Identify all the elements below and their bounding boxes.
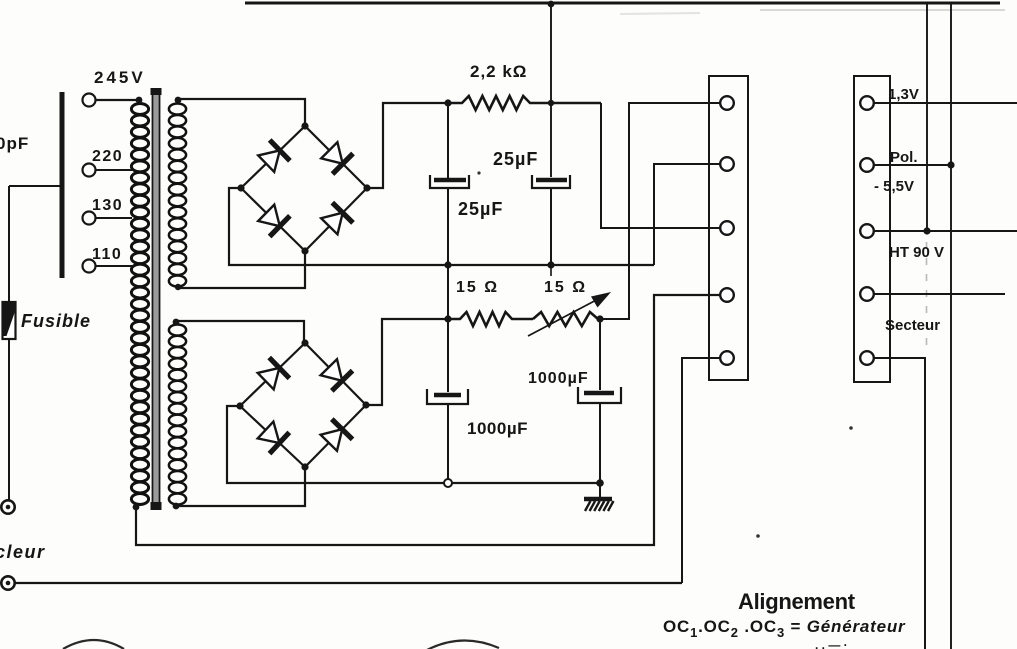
resistor R1 2,2 kOhm	[448, 96, 601, 110]
svg-text:1000µF: 1000µF	[467, 419, 528, 438]
svg-text:220: 220	[92, 148, 123, 165]
diode D3	[258, 205, 290, 237]
terminal strip left	[709, 76, 748, 380]
capacitor C4 1000uF	[578, 319, 621, 483]
node primary bottom	[133, 504, 140, 511]
terminal 220	[83, 164, 96, 177]
wire 220 tap	[96, 169, 132, 171]
selector plate bar	[60, 92, 65, 278]
wire down to fuse	[8, 186, 10, 303]
svg-text:Fusible: Fusible	[21, 311, 91, 331]
terminal right strip pin 5	[860, 351, 874, 365]
svg-text:Secteur: Secteur	[885, 317, 940, 334]
wire mains 2 long bottom run to right	[15, 582, 682, 584]
terminal left strip pin 2	[720, 157, 734, 171]
wire upper bridge - output down to minus rail	[229, 188, 654, 265]
node bridge vertex right	[362, 401, 369, 408]
wire primary bottom to strip T4 (mains)	[136, 295, 720, 545]
diode D2	[321, 142, 353, 174]
svg-text:Pol.: Pol.	[890, 149, 918, 166]
terminal right strip pin 4	[860, 287, 874, 301]
diode D5	[258, 358, 290, 390]
wire right T4 output	[874, 293, 1005, 295]
node C3 bottom open circle on ground rail	[444, 479, 452, 487]
node R1 left junction	[444, 99, 451, 106]
terminal mains input 1	[1, 500, 14, 513]
scan ghost line	[760, 9, 1005, 11]
wire right T2 Pol to bus	[874, 164, 951, 166]
terminal 130	[83, 212, 96, 225]
terminal strip right	[854, 76, 890, 382]
svg-text:Alignement: Alignement	[738, 589, 856, 614]
node R1 right / HT junction	[548, 100, 554, 106]
wire 130 tap	[96, 217, 132, 219]
svg-text:245V: 245V	[94, 68, 146, 87]
node HT junction on bus 1	[923, 227, 930, 234]
node Pol junction on bus 2	[947, 161, 954, 168]
svg-text:1,3V: 1,3V	[888, 86, 919, 103]
wire up from bottom run to strip T5	[682, 358, 720, 583]
svg-text:cleur: cleur	[0, 542, 46, 562]
wire bridge arm lower	[240, 343, 366, 467]
wire faint continuation of bus 1	[926, 242, 928, 350]
node bridge vertex top	[301, 122, 308, 129]
ink speck	[477, 171, 480, 174]
wire stub below C2 junction	[550, 265, 552, 276]
wire 110 tap	[96, 265, 132, 267]
capacitor C1 25uF	[430, 103, 469, 265]
svg-text:15 Ω: 15 Ω	[456, 279, 499, 296]
node secondary upper bottom	[175, 284, 181, 290]
node secondary lower bottom	[173, 503, 180, 510]
tube envelope arc cut at bottom left	[63, 640, 124, 649]
resistor R2 15 Ohm	[448, 312, 533, 326]
terminal right strip pin 1	[860, 96, 874, 110]
diode D4	[321, 203, 353, 235]
svg-text:2,2 kΩ: 2,2 kΩ	[470, 62, 527, 81]
wire upper bridge + output to 2.2k junction	[367, 103, 448, 188]
ink speck	[756, 534, 760, 538]
terminal left strip pin 4	[720, 288, 734, 302]
arrow of adjustable resistor R3	[528, 292, 611, 336]
wire C1 junction down to 15 ohm row	[447, 265, 449, 319]
terminal right strip pin 3	[860, 224, 874, 238]
svg-text:1000µF: 1000µF	[528, 370, 589, 387]
diode D6	[321, 359, 353, 391]
wire top HT+ rail	[245, 2, 1000, 5]
terminal right strip pin 2	[860, 158, 874, 172]
svg-text:HT 90 V: HT 90 V	[889, 244, 944, 261]
node bridge vertex left	[237, 184, 244, 191]
svg-text:25µF: 25µF	[493, 149, 538, 169]
capacitor C2 25uF	[532, 175, 570, 265]
wire right T1 1,3V output	[874, 102, 1017, 104]
fuse F1 Fusible	[3, 302, 16, 339]
wire lower bridge + output to 15 ohm row	[366, 319, 448, 405]
svg-text:130: 130	[92, 197, 123, 214]
diode D1	[258, 140, 290, 172]
tube envelope arc cut at bottom middle	[427, 640, 499, 649]
wire right T3 HT output	[874, 230, 1017, 232]
terminal left strip pin 1	[720, 96, 734, 110]
wire lower bridge - output to ground rail	[227, 406, 600, 483]
svg-text:. . — ·: . . — ·	[815, 638, 848, 649]
node C1 bottom on minus rail	[444, 261, 451, 268]
wire R3 output up to left strip T1	[600, 103, 720, 319]
terminal left strip pin 5	[720, 351, 734, 365]
node R3 output junction	[596, 315, 603, 322]
wire from fuse column to selector plate	[9, 185, 60, 187]
node 15 ohm left junction	[444, 315, 451, 322]
terminal mains input 2	[1, 576, 14, 589]
transformer TR1 core	[152, 90, 161, 508]
terminal 245V	[83, 94, 96, 107]
wire secondary lower top to lower bridge top	[176, 321, 304, 343]
transformer secondary winding lower	[169, 325, 186, 505]
node secondary upper top	[175, 97, 182, 104]
node bridge vertex bottom	[301, 247, 308, 254]
terminal 110	[83, 260, 96, 273]
transformer secondary winding upper	[169, 104, 186, 287]
transformer primary winding	[131, 104, 148, 505]
wire bridge arm upper	[241, 126, 367, 251]
svg-text:110: 110	[92, 246, 122, 263]
node C2 bottom on minus rail	[547, 261, 554, 268]
wire R1 output to left strip T3	[601, 103, 720, 228]
node ground junction	[596, 479, 604, 487]
node junction top rail / 25uF feed	[548, 1, 555, 8]
terminal left strip pin 3	[720, 221, 734, 235]
svg-text:0pF: 0pF	[0, 134, 29, 153]
svg-text:- 5,5V: - 5,5V	[874, 178, 914, 195]
ink speck	[849, 426, 853, 430]
node bridge vertex right	[363, 184, 370, 191]
svg-text:25µF: 25µF	[458, 199, 503, 219]
wire vertical from top rail to C2 top	[550, 3, 552, 177]
svg-text:15 Ω: 15 Ω	[544, 279, 587, 296]
node bridge vertex left	[236, 402, 243, 409]
node bridge vertex bottom	[301, 463, 308, 470]
diode D8	[321, 419, 353, 451]
wire secondary bottom to upper bridge bottom	[178, 251, 305, 288]
wire right vertical bus 2 (Pol)	[950, 4, 952, 649]
ground symbol	[584, 483, 614, 511]
node primary top	[136, 97, 143, 104]
wire 245V tap	[96, 99, 141, 101]
resistor R3 15 Ohm adjustable	[533, 312, 598, 326]
wire fuse to mains terminal 1	[8, 339, 10, 500]
wire secondary top to upper bridge	[178, 99, 305, 126]
wire right T5 Secteur down	[874, 358, 925, 649]
wire right vertical bus 1 (HT)	[926, 4, 928, 231]
wire minus rail up to left strip T2	[654, 164, 720, 265]
node bridge vertex top	[301, 339, 308, 346]
capacitor C3 1000uF	[427, 319, 468, 479]
diode D7	[258, 422, 290, 454]
node secondary lower top	[173, 319, 180, 326]
wire secondary lower bottom to lower bridge bottom	[176, 467, 305, 506]
